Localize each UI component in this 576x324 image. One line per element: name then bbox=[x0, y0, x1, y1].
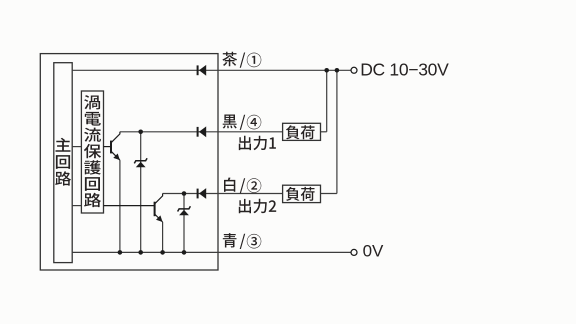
label: blue wire bbox=[223, 233, 261, 249]
wire: zener1 vertical bbox=[140, 132, 142, 253]
load box 2 bbox=[283, 185, 321, 202]
junction: DC line / load2 vertical bbox=[335, 68, 340, 73]
junction: DC line / load1 vertical bbox=[324, 68, 329, 73]
junction: 0V rail / Q1 emitter bbox=[118, 250, 123, 255]
zener diode ZD2 bbox=[179, 210, 189, 215]
svg-text:0V: 0V bbox=[363, 241, 384, 260]
transistor Q1 (NPN) bbox=[104, 132, 120, 160]
junction: 0V rail / Q2 emitter bbox=[160, 250, 165, 255]
wire: 0V rail row4 bbox=[72, 251, 351, 253]
wire: output2 row3 bbox=[163, 193, 283, 195]
load box 1 bbox=[283, 123, 321, 140]
label: black wire bbox=[223, 115, 262, 130]
diode D1 (brown line) bbox=[197, 65, 207, 76]
protection circuit block box bbox=[81, 91, 103, 213]
transistor Q2 (NPN) bbox=[104, 194, 163, 223]
wire: load2 right stub bbox=[321, 193, 337, 195]
label: output1 bbox=[239, 136, 276, 151]
junction: 0V rail / zener2 bbox=[182, 250, 187, 255]
label: load 1 bbox=[286, 125, 315, 139]
wire: load1 right stub bbox=[321, 131, 327, 133]
wire: brown line row1 bbox=[72, 69, 351, 71]
wire: block link upper bbox=[72, 146, 81, 148]
label: brown wire bbox=[222, 52, 261, 68]
junction: output2 line / zener2 bbox=[182, 191, 187, 196]
wire: block link lower bbox=[72, 205, 81, 207]
sensor outline box bbox=[40, 54, 218, 270]
zener diode ZD1 bbox=[136, 162, 146, 167]
svg-text:DC 10−30V: DC 10−30V bbox=[360, 59, 449, 79]
wire: Q1 emitter down bbox=[119, 160, 121, 252]
label: main circuit (vertical) bbox=[55, 138, 71, 186]
label: overcurrent protection circuit (vertical) bbox=[84, 95, 101, 207]
wire: Q2 emitter down bbox=[162, 222, 164, 252]
label: load 2 bbox=[286, 187, 315, 201]
main circuit block box bbox=[54, 63, 72, 263]
diode D3 (output2) bbox=[197, 188, 207, 199]
terminal: DC plus bbox=[351, 67, 357, 73]
label: white wire bbox=[224, 178, 261, 194]
diode D2 (output1) bbox=[197, 126, 207, 137]
wire: vertical load2 to DC bbox=[336, 70, 338, 193]
junction: 0V rail / zener1 bbox=[138, 250, 143, 255]
junction: output1 line / zener1 bbox=[138, 130, 143, 135]
wire: output1 row2 bbox=[120, 131, 283, 133]
wire: zener2 vertical bbox=[183, 194, 185, 253]
label: output2 bbox=[239, 199, 276, 214]
wire: vertical load1 to DC bbox=[326, 70, 328, 132]
terminal: 0V bbox=[351, 249, 357, 255]
